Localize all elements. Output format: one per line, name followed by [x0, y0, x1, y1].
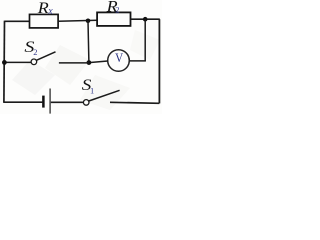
svg-text:1: 1 [90, 86, 94, 96]
wire: left frame vertical [3, 21, 6, 103]
wire: S2 contact to junction [59, 62, 89, 64]
junction node on voltmeter wire [87, 60, 92, 65]
junction node between Rx and R2 [86, 19, 91, 24]
battery positive plate (long thin) [49, 89, 51, 114]
svg-text:2: 2 [115, 5, 119, 15]
wire: left frame to S2 [4, 61, 31, 63]
switch S1 pivot circle [83, 100, 89, 106]
wire: bottom-right horizontal [110, 102, 159, 103]
junction node on left frame [2, 60, 7, 65]
switch S2 pivot circle [31, 59, 37, 65]
wire: vertical between top junction and voltmeter junction [87, 21, 90, 63]
wire: voltmeter right branch vertical [144, 19, 146, 61]
resistor R2 box [97, 12, 130, 26]
switch S1 lever [89, 90, 120, 101]
svg-text:2: 2 [33, 47, 37, 57]
switch S2 lever [36, 52, 55, 61]
wire: voltmeter right horizontal [130, 60, 146, 62]
wire: battery to switch S1 [51, 101, 84, 103]
battery negative plate (short thick) [42, 96, 45, 108]
wire: bottom-left horizontal to battery [3, 101, 42, 103]
svg-text:V: V [115, 50, 124, 65]
svg-text:x: x [47, 6, 53, 17]
wire: voltmeter left horizontal to junction [89, 61, 108, 63]
wire: R2 to top-right corner [131, 18, 160, 20]
resistor Rx box [30, 14, 59, 28]
wire: top-left horizontal (battery loop to Rx) [5, 20, 30, 22]
wire: right frame vertical [158, 19, 160, 103]
junction node right of R2 [143, 17, 148, 22]
voltmeter V1 circle [108, 50, 130, 72]
wire: Rx to R2 [58, 20, 97, 21]
